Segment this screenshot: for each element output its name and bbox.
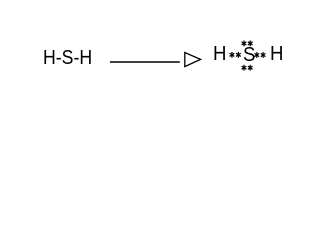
- product H atom right: [270, 44, 283, 64]
- bonding electron pair right **: [254, 52, 259, 58]
- bonding electron pair left **: [230, 52, 235, 58]
- reactant H-S-H: [43, 48, 92, 68]
- lone pair above S **: [242, 41, 247, 47]
- sulfur atom S: [243, 45, 255, 65]
- product H atom left: [213, 44, 226, 64]
- lone pair below S **: [242, 65, 247, 71]
- arrow shaft wire: [110, 61, 180, 63]
- arrowhead triangle: [185, 53, 201, 67]
